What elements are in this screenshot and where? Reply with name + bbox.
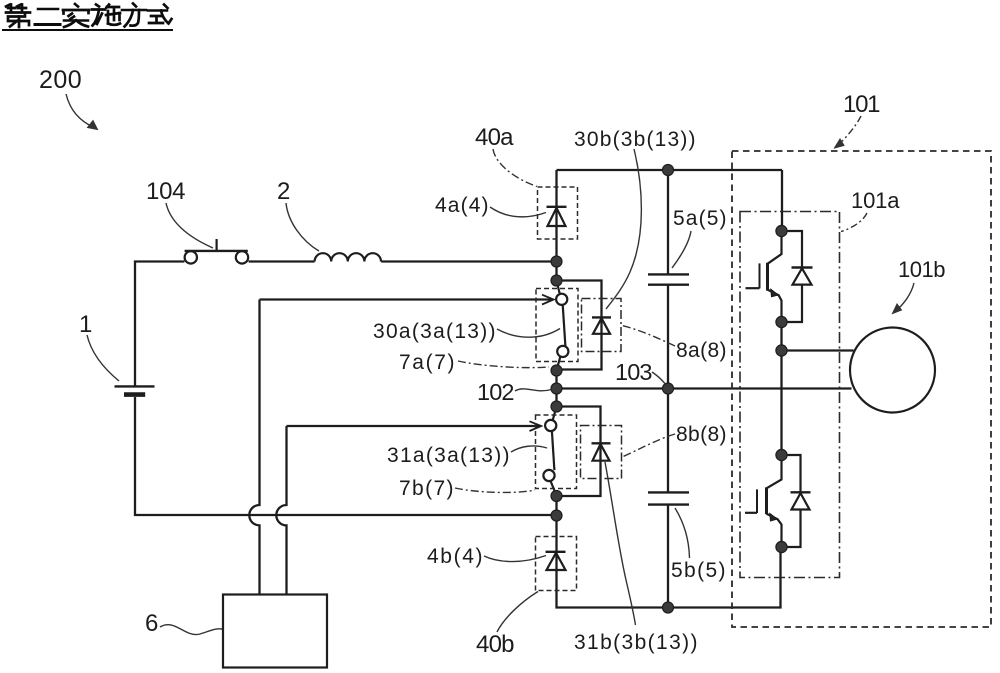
leader 31b lower long [605, 462, 636, 625]
title char shi1 [92, 5, 120, 26]
wire main vertical through diode 4a [555, 170, 557, 281]
battery 1 [115, 386, 155, 394]
wire node 102 row to motor [557, 387, 852, 389]
leader 104 [166, 203, 213, 248]
node dot cap 5b bottom [663, 602, 674, 613]
dashed box 40b [536, 537, 577, 591]
wire diode branch 7a [557, 281, 602, 370]
diode of IGBT lower [782, 455, 811, 547]
title char fang [122, 4, 146, 27]
svg-text:31b(3b(13)): 31b(3b(13)) [574, 631, 698, 654]
dash-dot box 8a [582, 299, 622, 352]
leader 2 [286, 203, 319, 251]
node dot IGBT1 collector [776, 225, 787, 236]
svg-text:40b: 40b [476, 631, 515, 658]
svg-text:8a(8): 8a(8) [676, 339, 727, 362]
leader 30a [497, 329, 560, 338]
svg-text:5a(5): 5a(5) [673, 207, 727, 230]
leader 7a dash-dot [458, 361, 549, 368]
wire capacitor 5a vertical [667, 170, 669, 389]
dashed box 31a [536, 415, 577, 489]
wire control A horizontal to switch 30a [260, 298, 552, 300]
wire control B horizontal to switch 31a [287, 425, 540, 427]
leader 101 dash-dot with arrow [837, 116, 861, 146]
switch 104 [185, 239, 249, 264]
svg-text:30a(3a(13)): 30a(3a(13)) [373, 320, 496, 343]
leader 1 [87, 335, 119, 381]
wire inverter vertical mid [780, 322, 782, 455]
node 102 [551, 383, 562, 394]
diode 30b in box 8a [592, 317, 611, 333]
title underline [3, 29, 172, 31]
title char er [35, 9, 60, 25]
leader 31a [511, 446, 547, 452]
leader 7b dash-dot [455, 488, 535, 492]
wire top rail from node 40a top to inverter corner [557, 169, 783, 171]
wire capacitor 5b vertical [667, 389, 669, 608]
diode 4b [546, 552, 566, 570]
leader 103 [652, 372, 667, 386]
leader 101a dash-dot [841, 213, 867, 232]
dashed box 40a [538, 187, 578, 239]
svg-text:102: 102 [477, 379, 515, 405]
node dot cap 5a top [663, 165, 674, 176]
arrow control A [542, 295, 554, 305]
dashed box 101 inverter unit [732, 151, 991, 627]
leader 4b [484, 556, 546, 562]
node dot motor tap [776, 345, 787, 356]
wire control B vertical with hop [276, 426, 286, 595]
wire main vertical 370-406 [555, 371, 557, 407]
transistor IGBT lower [745, 455, 782, 547]
dash-dot box 8b [581, 426, 622, 479]
svg-text:7b(7): 7b(7) [399, 477, 454, 500]
capacitor 5b [648, 492, 689, 504]
svg-text:200: 200 [39, 66, 82, 94]
leader 4a [490, 207, 546, 217]
diode of IGBT upper [782, 231, 813, 322]
leader 6 [160, 625, 222, 635]
node dot bottom rail join [551, 510, 562, 521]
node dot 7b top [551, 401, 562, 412]
leader 8b dash-dot [622, 434, 675, 457]
node dot 7a bottom [551, 365, 562, 376]
inductor 2 [315, 253, 381, 261]
svg-text:2: 2 [277, 178, 291, 205]
svg-text:7a(7): 7a(7) [399, 351, 455, 374]
svg-text:6: 6 [145, 610, 159, 637]
controller box 6 [223, 595, 327, 668]
wire diode branch 7b [557, 407, 601, 497]
leader 40b [497, 592, 538, 633]
wire inverter right vertical upper [781, 170, 783, 231]
leader 8a dash-dot [622, 326, 675, 347]
title char shi2 [63, 4, 89, 27]
contact 31a [543, 407, 556, 495]
title char shi4 [148, 5, 172, 24]
capacitor 5a [648, 274, 689, 284]
svg-text:103: 103 [615, 359, 653, 385]
wire main vertical lower through diode 4b to bottom rail [557, 496, 781, 608]
wire battery left vertical [135, 262, 184, 386]
diode 4a [547, 207, 567, 226]
leader 101b with arrow [895, 283, 914, 312]
svg-text:5b(5): 5b(5) [671, 559, 726, 582]
wire inverter midpoint to motor [782, 349, 854, 351]
svg-text:31a(3a(13)): 31a(3a(13)) [387, 444, 510, 467]
svg-text:30b(3b(13)): 30b(3b(13)) [574, 128, 696, 151]
leader 102 [515, 389, 552, 391]
leader 30b upper long [606, 149, 641, 309]
leader 5a [672, 231, 691, 268]
diode 31b in box 8b [592, 443, 611, 460]
svg-text:101b: 101b [898, 257, 946, 282]
leader 5b [675, 508, 690, 558]
node dot 7b bottom [551, 491, 562, 502]
svg-text:1: 1 [79, 311, 93, 338]
svg-text:8b(8): 8b(8) [676, 423, 727, 446]
wire battery bottom to bottom rail [135, 397, 557, 515]
svg-text:101a: 101a [851, 188, 900, 213]
svg-text:40a: 40a [475, 124, 514, 151]
node 103 [663, 383, 674, 394]
leader 40a dash-dot [493, 149, 537, 187]
dashed box 30a [536, 289, 578, 362]
node dot IGBT2 collector [776, 449, 787, 460]
contact 30a [556, 281, 568, 371]
transistor IGBT upper [746, 231, 782, 322]
node dot IGBT2 emitter [776, 541, 787, 552]
node dot inductor join [551, 256, 562, 267]
wire battery top rail right of inductor [381, 260, 556, 262]
node dot IGBT1 emitter [776, 316, 787, 327]
svg-text:4b(4): 4b(4) [427, 545, 483, 568]
leader 200 with arrow [66, 94, 96, 129]
svg-text:4a(4): 4a(4) [435, 194, 489, 217]
node dot 7a top [551, 275, 562, 286]
arrow control B [530, 421, 542, 431]
svg-text:104: 104 [146, 178, 186, 205]
title char di [6, 5, 30, 28]
wire battery top rail left of inductor [249, 260, 315, 262]
motor 101b circle [850, 328, 935, 413]
svg-text:101: 101 [843, 91, 881, 118]
dash-dot box 101a [740, 212, 840, 578]
wire control A vertical with hop [249, 300, 259, 595]
